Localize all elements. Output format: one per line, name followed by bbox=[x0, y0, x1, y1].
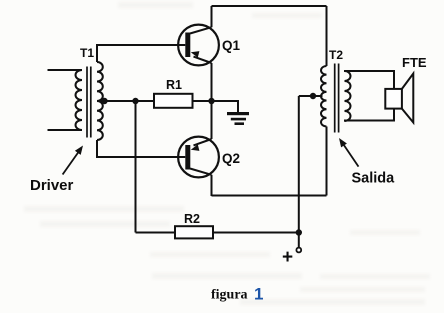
terminal: + supply bbox=[296, 248, 301, 253]
node: emitter junction bbox=[208, 98, 214, 104]
svg-text:figura: figura bbox=[211, 288, 248, 303]
wire: R2 horizontal run bbox=[136, 232, 299, 234]
wire: bottom rail bbox=[212, 195, 327, 197]
transistor Q1 bbox=[178, 6, 219, 101]
transformer T1 core bbox=[87, 67, 91, 138]
svg-text:T1: T1 bbox=[80, 46, 94, 60]
svg-text:Q2: Q2 bbox=[222, 151, 240, 166]
node: junction at x135 bbox=[132, 98, 138, 104]
arrow to driver transformer bbox=[63, 152, 79, 175]
svg-text:Salida: Salida bbox=[352, 171, 396, 187]
wire: T2 primary bottom lead bbox=[326, 127, 328, 196]
svg-text:R2: R2 bbox=[184, 212, 200, 226]
wire: stub to + terminal bbox=[298, 233, 300, 248]
wire: right vertical to T2 primary top bbox=[326, 6, 328, 66]
transistor Q2 bbox=[178, 101, 219, 196]
wire: speaker top lead bbox=[344, 71, 394, 89]
wire: speaker bottom lead bbox=[344, 109, 394, 121]
svg-text:Driver: Driver bbox=[30, 177, 74, 194]
node: supply junction bbox=[296, 229, 302, 235]
resistor R2 bbox=[175, 226, 213, 238]
wire: top rail bbox=[212, 5, 327, 7]
speaker FTE driver box bbox=[385, 89, 402, 109]
transformer T2 primary coil bbox=[321, 66, 326, 126]
svg-text:T2: T2 bbox=[329, 48, 343, 62]
wire: R1 right to ground stub bbox=[193, 101, 239, 112]
transformer T2 core bbox=[335, 64, 339, 133]
svg-text:1: 1 bbox=[254, 285, 263, 304]
svg-text:R1: R1 bbox=[166, 78, 182, 92]
transformer T1 primary coil bbox=[76, 70, 83, 130]
transformer T1 secondary coil bbox=[97, 62, 103, 140]
svg-text:FTE: FTE bbox=[402, 55, 427, 70]
wire: T1 secondary bottom to Q2 base bbox=[97, 140, 185, 157]
wire: center tap to R1 bbox=[100, 100, 154, 102]
wire: T1 primary bottom lead bbox=[48, 129, 83, 131]
wire: T1 primary top lead bbox=[48, 69, 83, 71]
arrow to output transformer bbox=[344, 145, 359, 166]
ground bbox=[227, 112, 249, 125]
node: T1 center tap junction bbox=[101, 98, 107, 104]
wire: supply vertical bbox=[298, 96, 300, 233]
svg-text:Q1: Q1 bbox=[222, 38, 241, 53]
wire: T1 secondary top to Q1 base bbox=[97, 45, 185, 62]
transformer T2 secondary coil bbox=[345, 71, 351, 121]
wire: T2 center tap bbox=[299, 95, 323, 97]
speaker FTE cone bbox=[402, 74, 413, 123]
node: T2 center tap junction bbox=[310, 93, 316, 99]
svg-text:+: + bbox=[282, 247, 293, 268]
resistor R1 bbox=[154, 94, 193, 108]
wire: vertical feed down to R2 bbox=[135, 101, 137, 233]
